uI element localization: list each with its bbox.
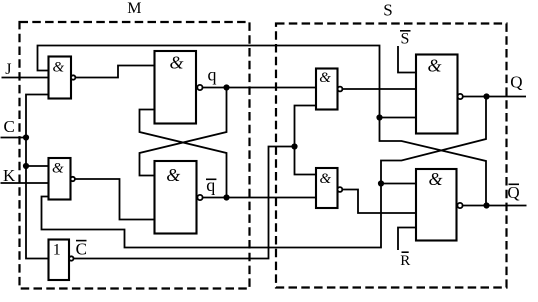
svg-text:Q: Q <box>507 183 519 202</box>
bubble U9 output <box>457 203 462 208</box>
svg-text:Q: Q <box>510 73 522 92</box>
wire C-bar output to slave steering gates <box>74 106 317 259</box>
wire q-bar cross-coupling up to U3 lower input <box>140 110 227 198</box>
inverter U5 (clock inverter) <box>49 240 70 281</box>
node Q feedback junction <box>378 180 384 186</box>
svg-text:M: M <box>127 0 141 17</box>
wire Q net branch to U9 upper input <box>381 183 416 185</box>
wire C branch to K gate <box>26 165 49 167</box>
bubble U3 output <box>197 85 202 90</box>
svg-text:J: J <box>5 61 11 78</box>
svg-text:&: & <box>169 52 183 72</box>
nand gate U9 (slave Q-bar gate) <box>416 169 457 241</box>
svg-text:R: R <box>400 253 410 269</box>
wire K input <box>1 182 49 184</box>
bubble U7 output <box>338 187 343 192</box>
wire J input <box>2 77 49 79</box>
svg-text:C: C <box>4 117 15 136</box>
nand gate U3 (master q gate) <box>155 51 197 124</box>
bubble U1 output <box>71 75 75 79</box>
dashed box M (master section) <box>20 22 250 289</box>
svg-text:S: S <box>383 1 392 20</box>
wire S-bar input to U8 <box>398 46 416 73</box>
bubble U5 output <box>69 256 73 260</box>
svg-text:&: & <box>52 60 64 76</box>
wire C vertical trunk with branch to J gate and to inverter <box>26 95 49 259</box>
svg-text:1: 1 <box>53 242 61 259</box>
nand gate U6 (slave upper steering gate) <box>316 69 338 110</box>
node C-bar junction <box>291 143 297 149</box>
svg-text:q: q <box>208 65 217 85</box>
svg-text:q: q <box>206 175 215 195</box>
wire U6 output to U8 input <box>342 88 416 90</box>
bubble U4 output <box>197 195 202 200</box>
wire U1 output to U3 input (step up) <box>75 66 154 78</box>
wire Q-bar output line <box>463 205 527 207</box>
svg-text:&: & <box>319 70 331 86</box>
svg-text:&: & <box>319 171 331 187</box>
svg-text:&: & <box>52 160 64 176</box>
bubble U2 output <box>71 177 75 181</box>
node C junction lower <box>23 163 29 169</box>
wire Q-bar net down through slave cross to Q-bar output <box>380 118 487 203</box>
svg-text:C: C <box>76 240 87 259</box>
wire R-bar input to U9 <box>398 228 416 251</box>
nand gate U2 (K steering gate) <box>49 158 71 200</box>
wire feedback from Q-bar to U1 top input (top rail) <box>38 46 380 118</box>
wire C-bar branch down to U7 input <box>295 147 317 175</box>
nand gate U1 (J steering gate) <box>49 57 72 99</box>
bubble U6 output <box>338 87 343 92</box>
svg-text:&: & <box>166 165 180 185</box>
svg-text:&: & <box>427 56 441 76</box>
node C junction upper <box>23 134 29 140</box>
wire U7 output to U9 input (jog down) <box>342 190 416 214</box>
dashed box S (slave section) <box>276 24 507 288</box>
wire U2 output to U4 lower input (step down) <box>75 179 155 220</box>
nand gate U7 (slave lower steering gate) <box>316 168 338 208</box>
bubble U8 output <box>458 94 463 99</box>
node Q-bar feedback junction <box>376 114 382 120</box>
wire feedback from Q to U2 bottom input (bottom rail) <box>42 99 487 247</box>
svg-text:&: & <box>428 169 442 189</box>
node q junction <box>223 84 229 90</box>
node Q junction <box>483 93 489 99</box>
wire Q output line <box>463 96 526 98</box>
wire q-bar output line to slave gate U7 <box>203 197 316 199</box>
nand gate U4 (master q-bar gate) <box>155 161 197 234</box>
wire Q-bar cross-coupling: node to U8 lower input <box>380 117 417 119</box>
node Q-bar junction <box>483 202 489 208</box>
wire C input <box>1 137 27 139</box>
svg-text:S: S <box>401 31 410 48</box>
nand gate U8 (slave Q gate) <box>416 55 458 134</box>
wire q output line to slave gate U6 <box>203 87 317 89</box>
wire q cross-coupling down to U4 upper input <box>140 88 227 176</box>
node q-bar junction <box>223 194 229 200</box>
